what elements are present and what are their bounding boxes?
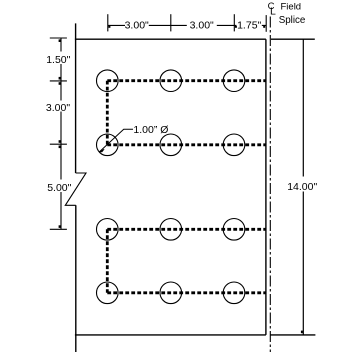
svg-text:Field: Field xyxy=(281,2,302,13)
right piece top edge xyxy=(271,38,315,40)
bolt hole r3c1 xyxy=(97,219,119,241)
bolt hole r2c2 xyxy=(160,134,182,156)
break line symbol xyxy=(65,173,86,205)
bolt line row1 xyxy=(107,79,266,82)
bolt line col1 lower xyxy=(106,229,109,292)
bolt hole r3c3 xyxy=(223,219,245,241)
top dim extension tick col1 xyxy=(107,14,109,31)
bolt hole r1c2 xyxy=(160,70,182,92)
field splice centerline xyxy=(269,17,271,352)
bolt hole r3c2 xyxy=(160,219,182,241)
svg-text:Splice: Splice xyxy=(279,15,306,26)
top dim extension tick col2 xyxy=(170,14,172,31)
centerline symbol xyxy=(268,1,276,18)
bolt hole r2c1 xyxy=(97,134,119,156)
14.00 dimension line xyxy=(302,39,304,335)
left dim arrow nubs xyxy=(59,39,61,42)
svg-text:1.50": 1.50" xyxy=(46,54,70,66)
top dim arrow nubs xyxy=(108,26,110,28)
plate left edge (lower) xyxy=(75,205,77,352)
plate bottom edge xyxy=(75,334,266,336)
top dim extension tick centerline xyxy=(265,15,267,32)
bolt line col1 upper xyxy=(106,81,109,145)
bolt hole r4c3 xyxy=(223,282,245,304)
left dim tick top edge xyxy=(50,37,67,39)
svg-text:5.00": 5.00" xyxy=(47,182,71,194)
14.00 dim tick mark xyxy=(301,331,303,334)
plate right edge at splice xyxy=(265,39,267,335)
svg-text:3.00": 3.00" xyxy=(125,20,149,32)
top dimension line xyxy=(108,24,266,26)
bolt hole r1c1 xyxy=(97,70,119,92)
bolt hole r1c3 xyxy=(223,70,245,92)
bolt line row3 xyxy=(107,228,266,231)
left dim tick row2 xyxy=(50,143,67,145)
hole diameter leader xyxy=(100,129,134,152)
bolt line row2 xyxy=(107,143,266,146)
svg-text:L: L xyxy=(270,5,276,17)
svg-text:1.00” Ø: 1.00” Ø xyxy=(133,124,168,136)
leader arrowhead xyxy=(99,149,104,152)
left dimension line xyxy=(60,38,62,229)
right piece bottom edge xyxy=(270,334,315,336)
bolt hole r4c1 xyxy=(97,282,119,304)
bolt hole r2c3 xyxy=(223,134,245,156)
bolt line row4 xyxy=(107,291,266,294)
svg-text:14.00": 14.00" xyxy=(287,181,317,193)
bolt hole r4c2 xyxy=(160,282,182,304)
left dim tick row1 xyxy=(50,80,67,82)
svg-text:1.75": 1.75" xyxy=(237,20,261,32)
plate left edge (upper) xyxy=(75,23,77,173)
svg-text:3.00": 3.00" xyxy=(46,102,70,114)
svg-text:3.00": 3.00" xyxy=(190,20,214,32)
left dim tick row3 xyxy=(50,228,67,230)
plate top edge xyxy=(75,38,266,40)
top dim extension tick col3 xyxy=(233,14,235,31)
